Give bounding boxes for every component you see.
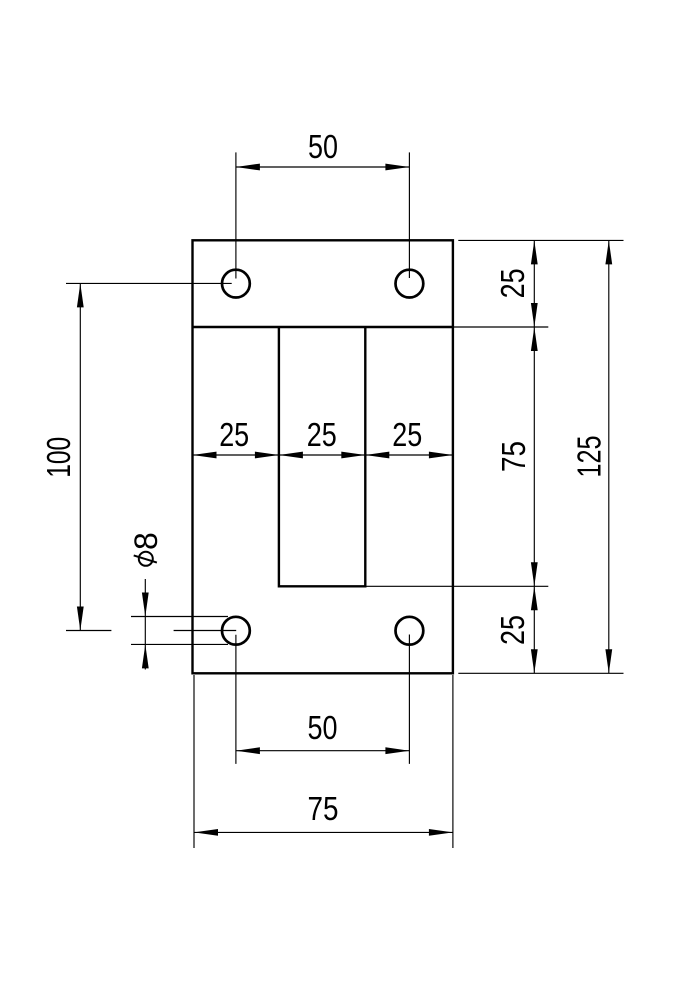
dimension phi8: diameter symbol slash [134,555,157,562]
svg-text:125: 125 [570,436,607,478]
dimension phi8: upper tangent line [131,616,228,618]
hole bottom-right [396,617,424,645]
hole top-left [222,270,250,298]
right chain dimension line (25/75/25) [533,240,535,673]
dimension 50 top: extension line right (centerline of TR hole) [408,152,410,278]
right dims: extension line at band bottom [453,326,548,328]
plate outline [193,240,453,673]
dimension 50 bottom: extension line right (centerline of BR hole) [408,635,410,764]
dimension 125: dimension line [608,240,610,673]
right dims: extension line bottom (plate bottom) [458,672,623,674]
centerline horizontal hole bottom-left [174,630,237,632]
hole bottom-left [222,617,250,645]
svg-text:25: 25 [494,615,531,645]
chain 25 arrowhead at plate right [429,452,453,459]
right chain arrowhead up at plate top [531,240,538,264]
dimension 50 top: right arrowhead [385,164,409,171]
svg-text:25: 25 [494,268,531,298]
dimension 50 bottom: extension line left (centerline of BL hole) [235,635,237,764]
svg-text:75: 75 [495,441,532,472]
dimension 50 bottom: left arrowhead [236,747,260,754]
hole top-right [396,270,424,298]
svg-text:25: 25 [219,416,249,453]
dimension 75 bottom: extension line right [452,675,454,848]
dimension 75 bottom: dimension line [194,831,453,833]
dimension phi8: lower tangent line [131,643,228,645]
svg-text:8: 8 [128,532,164,550]
svg-text:50: 50 [308,709,338,746]
right chain arrowheads at slot bottom [531,562,538,586]
dimension chain 25/25/25: dimension line [193,454,453,456]
dimension 100 left: dimension line [79,283,81,630]
svg-text:25: 25 [307,416,337,453]
dimension phi8: upper arrowhead (down) [142,593,149,617]
dimension 100 left: bottom arrowhead [77,607,84,631]
dimension 100 left: top arrowhead [77,283,84,307]
dimension phi8: leader line [144,579,146,670]
right chain arrowheads at band bottom [531,303,538,327]
dimension 125: top arrowhead [605,240,612,264]
centerline horizontal hole top-left (also ext. of 100 dim) [66,282,232,284]
right dims: extension line at slot bottom [365,585,548,587]
dimension 75 bottom: left arrowhead [194,829,218,836]
dimension 75 bottom: extension line left [193,675,195,848]
right chain arrowhead down at plate bottom [531,649,538,673]
dimension 50 bottom: dimension line [236,750,410,752]
dimension 100 left: extension line bottom [66,630,111,632]
dimension 50 top: dimension line [236,166,410,168]
chain 25 arrowhead at plate left [193,452,217,459]
dimension 125: bottom arrowhead [605,649,612,673]
slot [279,327,365,586]
dimension phi8: diameter symbol circle [139,552,153,566]
dimension 50 top: left arrowhead [236,164,260,171]
dimension 50 bottom: right arrowhead [385,747,409,754]
plate interior edge (bottom of top band / slot top) [193,326,453,328]
right dims: extension line top (plate top) [458,239,623,241]
chain 25 arrowheads at slot right [341,452,365,459]
dimension 50 top: extension line left (centerline of TL hole) [235,152,237,278]
svg-text:75: 75 [308,790,339,827]
svg-text:25: 25 [392,416,422,453]
dimension 75 bottom: right arrowhead [429,829,453,836]
svg-text:100: 100 [40,437,77,478]
dimension phi8: lower arrowhead (up) [142,644,149,668]
chain 25 arrowheads at slot left [255,452,279,459]
svg-text:50: 50 [308,128,338,165]
